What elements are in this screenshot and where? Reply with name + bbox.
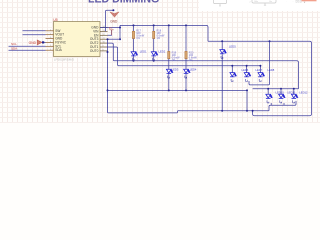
junction dots rail B xyxy=(221,40,270,42)
row 2 collector xyxy=(269,101,296,111)
riser rail A down to OUT3 wire xyxy=(119,25,121,39)
wire W1 to pin SW xyxy=(23,30,46,32)
power port 5V on EN pin xyxy=(108,30,112,35)
column 1 wire to LED xyxy=(133,39,135,52)
LED5 xyxy=(220,50,227,54)
single LED5 column xyxy=(221,41,223,49)
LED3 xyxy=(166,69,173,73)
svg-text:OUT0: OUT0 xyxy=(90,49,99,53)
resistor R20 labels xyxy=(189,51,198,62)
svg-text:LED2: LED2 xyxy=(159,50,166,54)
svg-text:LP5018RSM/5: LP5018RSM/5 xyxy=(54,58,74,62)
junction dots riser x120 xyxy=(119,27,121,41)
LED12 xyxy=(291,94,298,98)
rail B xyxy=(208,41,312,115)
svg-text:LED4: LED4 xyxy=(190,67,197,71)
resistor R19 labels xyxy=(172,51,181,62)
LED2 xyxy=(151,52,158,56)
LED6 xyxy=(230,73,237,77)
wire pin GND to riser xyxy=(100,27,120,29)
column 1: riser xyxy=(133,25,135,32)
column 2 wire to LED xyxy=(153,39,155,52)
row 2 LEDs feed risers xyxy=(268,89,294,94)
IC left pin labels xyxy=(55,29,67,52)
ghost label block top right xyxy=(296,0,303,4)
resistor R18 xyxy=(153,31,155,38)
column 2: riser xyxy=(153,25,155,32)
white area top-right xyxy=(199,0,320,11)
svg-text:10u: 10u xyxy=(269,1,272,3)
svg-text:LED1: LED1 xyxy=(140,50,147,54)
column 4 wire to LED xyxy=(185,59,187,69)
svg-text:LED11: LED11 xyxy=(287,90,296,94)
svg-text:LED7: LED7 xyxy=(256,68,263,72)
wire W4 SDA xyxy=(9,49,46,51)
rail F xyxy=(108,89,248,91)
junction dots rails D F bottom xyxy=(133,60,254,112)
svg-text:LED5: LED5 xyxy=(229,45,236,49)
svg-text:2: 2 xyxy=(250,2,251,4)
resistor R17 labels xyxy=(136,29,145,40)
svg-text:5V: 5V xyxy=(109,26,112,30)
ghost connector J? (cut off at top) xyxy=(252,0,276,5)
svg-text:LED8: LED8 xyxy=(268,68,275,72)
svg-text:LED10: LED10 xyxy=(276,90,285,94)
wire W3 SCL xyxy=(9,45,46,47)
svg-text:SCL: SCL xyxy=(11,42,17,46)
svg-text:LED DIMMING: LED DIMMING xyxy=(88,0,159,6)
svg-text:SDA: SDA xyxy=(55,48,62,52)
ghost capacitor body dot xyxy=(219,5,220,6)
wire W2 to pin VOUT xyxy=(23,34,46,36)
ground symbol left xyxy=(29,40,46,45)
column 4: riser xyxy=(185,25,187,52)
svg-text:GND: GND xyxy=(29,41,37,45)
IC right pin labels xyxy=(90,26,99,53)
IC U1 body xyxy=(54,22,101,57)
svg-text:VCC 5V: VCC 5V xyxy=(296,2,303,4)
svg-text:GND: GND xyxy=(110,19,118,23)
row 1 LEDs feed risers xyxy=(232,66,260,73)
wire OUT3 pin to long vertical xyxy=(108,38,121,40)
rail A (top) xyxy=(120,25,208,41)
wire pin VIN up to ground port xyxy=(106,10,114,31)
ghost tiny texts top xyxy=(250,1,294,4)
junction dots rail A xyxy=(133,24,188,26)
highlighted net stub (salmon) xyxy=(302,0,317,1)
svg-text:SDA: SDA xyxy=(11,46,17,50)
resistor R19 xyxy=(168,51,170,58)
resistor R20 xyxy=(185,51,187,58)
bottom rail xyxy=(109,111,269,113)
LED7 xyxy=(244,73,251,77)
LED4 xyxy=(184,69,191,73)
wire OUT2 pin to rail D xyxy=(108,43,299,89)
resistor R18 labels xyxy=(157,29,166,40)
LED1 xyxy=(131,52,138,56)
svg-text:U5: U5 xyxy=(53,18,57,22)
junction dots rail C xyxy=(231,65,261,67)
LED8 xyxy=(258,73,265,77)
resistor R17 xyxy=(132,31,134,38)
row 1 collector wire xyxy=(249,41,270,85)
svg-text:LED3: LED3 xyxy=(172,67,179,71)
svg-text:100n: 100n xyxy=(254,1,258,3)
column 3 wire to LED xyxy=(168,59,170,69)
IC left pin stubs xyxy=(46,31,54,50)
svg-text:LED6: LED6 xyxy=(242,68,249,72)
column 3: riser xyxy=(168,25,170,52)
junction dots on vertical x107.5 xyxy=(107,38,109,91)
ghost capacitor C? (cut off at top) xyxy=(214,0,227,5)
ground power port (salmon arrow) xyxy=(112,9,114,11)
rail E xyxy=(253,88,299,90)
sheet background with grid xyxy=(0,0,320,123)
LED10 xyxy=(266,94,273,98)
svg-text:LED12: LED12 xyxy=(299,90,308,94)
IC pin numbers xyxy=(50,26,106,51)
wire OUT1 pin to rail C xyxy=(108,47,261,66)
LED11 xyxy=(279,94,286,98)
IC right pin stubs xyxy=(100,28,108,51)
vertical from rail F to bottom rail xyxy=(246,90,248,110)
junction dots rail E xyxy=(267,88,295,90)
